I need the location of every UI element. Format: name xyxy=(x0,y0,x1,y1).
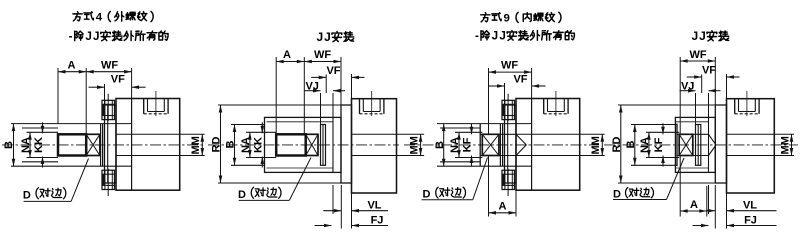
svg-text:J: J xyxy=(85,30,92,43)
svg-text:NA: NA xyxy=(240,137,252,153)
svg-text:J: J xyxy=(492,30,499,43)
svg-text:VL: VL xyxy=(743,200,757,212)
svg-text:D: D xyxy=(423,189,431,201)
svg-text:KF: KF xyxy=(462,137,474,152)
svg-text:FJ: FJ xyxy=(371,214,384,226)
svg-text:RD: RD xyxy=(611,137,623,153)
svg-text:J: J xyxy=(316,30,323,44)
svg-text:J: J xyxy=(691,29,698,43)
svg-text:VF: VF xyxy=(111,73,125,85)
svg-text:4: 4 xyxy=(96,12,103,24)
svg-text:WF: WF xyxy=(501,60,518,72)
svg-text:VJ: VJ xyxy=(681,80,694,92)
svg-text:A: A xyxy=(68,59,76,71)
svg-text:B: B xyxy=(225,140,237,148)
svg-text:A: A xyxy=(690,199,698,211)
svg-text:NA: NA xyxy=(449,137,461,153)
svg-text:B: B xyxy=(434,141,446,149)
svg-text:NA: NA xyxy=(20,137,32,153)
svg-text:VJ: VJ xyxy=(305,80,318,92)
svg-text:A: A xyxy=(283,49,291,61)
svg-text:J: J xyxy=(699,29,706,43)
svg-text:VF: VF xyxy=(326,65,340,77)
svg-text:KF: KF xyxy=(653,137,665,152)
svg-text:J: J xyxy=(93,30,100,43)
svg-text:NA: NA xyxy=(639,137,651,153)
svg-text:WF: WF xyxy=(101,59,118,71)
svg-text:WF: WF xyxy=(314,49,331,61)
svg-text:KK: KK xyxy=(33,137,45,153)
svg-text:MM: MM xyxy=(190,136,202,154)
svg-text:WF: WF xyxy=(689,49,706,61)
svg-text:A: A xyxy=(499,201,507,213)
svg-text:VL: VL xyxy=(367,200,381,212)
svg-text:D: D xyxy=(23,189,31,201)
svg-text:9: 9 xyxy=(504,12,510,24)
svg-text:-: - xyxy=(475,30,479,43)
svg-text:D: D xyxy=(613,189,621,201)
svg-text:J: J xyxy=(324,30,331,44)
svg-text:J: J xyxy=(499,30,506,43)
svg-text:-: - xyxy=(69,30,73,43)
svg-text:FJ: FJ xyxy=(744,214,757,226)
svg-text:D: D xyxy=(238,189,246,201)
svg-text:MM: MM xyxy=(779,136,791,154)
svg-text:VF: VF xyxy=(702,64,716,76)
svg-text:KK: KK xyxy=(252,137,264,153)
svg-text:B: B xyxy=(625,140,637,148)
svg-text:VF: VF xyxy=(513,74,527,86)
svg-text:RD: RD xyxy=(211,137,223,153)
svg-text:MM: MM xyxy=(590,136,602,154)
svg-text:B: B xyxy=(3,141,15,149)
